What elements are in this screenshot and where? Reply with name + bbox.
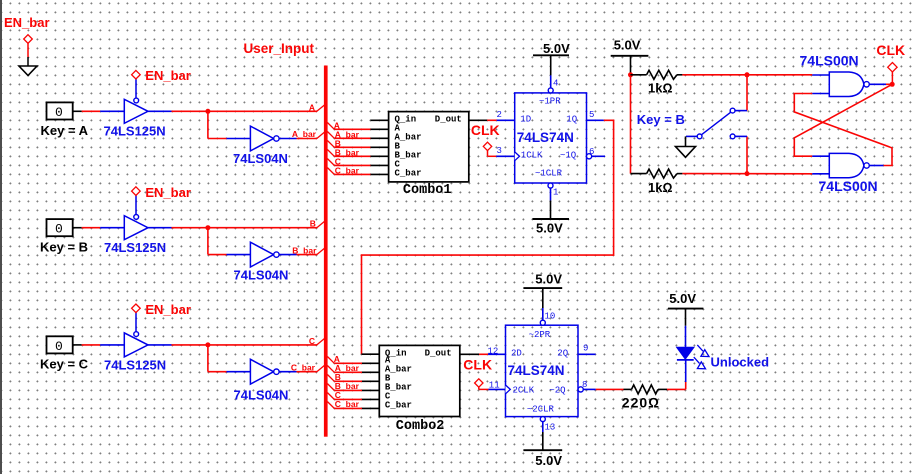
inverter U4 74LS04N (B_bar) [250, 242, 279, 267]
svg-text:D_out: D_out [425, 348, 452, 358]
switch S1 (SPDT Key B) [686, 108, 747, 139]
wire bus to Combo1 pin C_bar [327, 168, 388, 175]
svg-text:2Q: 2Q [557, 348, 568, 358]
wire box B to buffer [73, 227, 125, 229]
svg-text:~1Q: ~1Q [560, 150, 576, 160]
pin stub ~1Q (unconnected) [592, 155, 605, 157]
svg-text:EN_bar: EN_bar [145, 68, 191, 83]
pin bubble ~1PR pin 4 [548, 88, 553, 93]
bus entry C [317, 338, 326, 345]
svg-text:5.0V: 5.0V [614, 38, 641, 53]
svg-text:1kΩ: 1kΩ [648, 80, 672, 95]
resistor R1 1kOhm (upper) [631, 70, 683, 79]
wire box C to buffer [73, 344, 125, 346]
svg-text:2CLK: 2CLK [513, 385, 535, 395]
LED1 (blue LED) [677, 347, 694, 360]
svg-text:2: 2 [497, 110, 502, 120]
svg-text:Combo1: Combo1 [403, 183, 452, 198]
svg-text:Key = B: Key = B [40, 240, 88, 255]
wire CLK diamond to pin 11 [479, 387, 506, 389]
svg-text:B: B [310, 219, 316, 229]
wire set node down to switch throw [746, 75, 748, 111]
svg-text:9: 9 [583, 344, 588, 354]
svg-text:4: 4 [553, 78, 558, 88]
wire inverter C output to bus [279, 371, 317, 373]
wire supply down to R2 [630, 75, 632, 174]
wire CLK diamond to pin 3 [488, 151, 515, 157]
svg-text:11: 11 [489, 381, 500, 391]
svg-text:C_bar: C_bar [335, 165, 360, 175]
svg-text:5.0V: 5.0V [536, 220, 563, 235]
subcircuit Combo2 box [379, 345, 460, 416]
svg-text:1kΩ: 1kΩ [648, 180, 672, 195]
wire buffer B output to bus [148, 227, 317, 229]
tri-state buffer U1 74LS125N (Key A) [124, 98, 148, 123]
svg-text:EN_bar: EN_bar [145, 185, 191, 200]
wire bus to Combo2 pin C [327, 393, 379, 400]
junction node set [745, 72, 750, 77]
svg-text:~2CLR: ~2CLR [527, 405, 555, 415]
wire ~2Q pin 8 to resistor R3 [583, 388, 623, 390]
wire bus to Combo2 pin A_bar [327, 366, 379, 373]
emission arrows LED1 [694, 345, 709, 369]
svg-text:0: 0 [55, 222, 63, 237]
bus entry C_bar [317, 365, 326, 372]
wire Combo1 D_out to U7 1D pin 2 [469, 119, 515, 121]
supply 5.0V (below U7) [533, 219, 570, 235]
svg-text:CLK: CLK [471, 122, 500, 138]
resistor R3 220Ohm [624, 385, 668, 394]
wire supply stem [630, 56, 632, 75]
pin stubs U9 inputs [812, 75, 829, 94]
wire buffer C output to bus [148, 344, 317, 346]
bus entry A_bar [317, 131, 326, 138]
svg-text:~2PR: ~2PR [529, 330, 551, 340]
bus entry B_bar [317, 248, 326, 255]
wire bus to Combo2 pin B_bar [327, 384, 379, 391]
wire upper gate second input from lower gate output [794, 94, 892, 166]
junction node reset [745, 171, 750, 176]
svg-text:Key = A: Key = A [41, 123, 89, 138]
svg-text:User_Input: User_Input [244, 41, 315, 56]
bus entry A [317, 104, 326, 111]
pin bubble ~1Q pin 6 [587, 154, 592, 159]
svg-text:C_bar: C_bar [291, 362, 316, 372]
wire inverter A output to bus [279, 138, 317, 140]
svg-text:74LS04N: 74LS04N [233, 151, 288, 166]
wire Combo2 D_out to U8 2D pin 12 [460, 353, 506, 355]
wire U10 output [869, 165, 883, 167]
svg-text:1D: 1D [520, 114, 531, 124]
pin stub 2Q pin 9 (unconnected) [578, 353, 596, 355]
svg-text:3: 3 [497, 146, 502, 156]
wire bus to Combo1 pin A_bar [327, 132, 388, 139]
connector diamond EN_bar (buffer A) [132, 70, 141, 79]
pin stub Q_in Combo1 (unconnected) [371, 119, 389, 121]
svg-text:1Q: 1Q [566, 114, 577, 124]
svg-text:Unlocked: Unlocked [711, 355, 770, 370]
svg-text:5.0V: 5.0V [543, 41, 570, 56]
svg-text:EN_bar: EN_bar [145, 302, 191, 317]
svg-text:0: 0 [55, 105, 63, 120]
NAND gate U9 74LS00N (upper) [829, 72, 869, 97]
svg-text:C: C [309, 336, 315, 346]
svg-text:5.0V: 5.0V [669, 291, 696, 306]
wire bus to Combo2 pin B [327, 375, 379, 382]
input box Key C value 0 [47, 336, 73, 354]
supply 5.0V (switch section) [611, 38, 649, 56]
input box Key A value 0 [47, 102, 73, 120]
svg-text:74LS04N: 74LS04N [234, 267, 289, 282]
D flip-flop U7 74LS74N [515, 93, 587, 183]
svg-text:74LS125N: 74LS125N [104, 240, 166, 255]
wire branch B to inverter [208, 228, 251, 255]
ground (digital ground symbol) [19, 66, 37, 76]
input box Key B value 0 [47, 219, 73, 237]
pin stubs U10 inputs [812, 156, 829, 174]
supply 5.0V (above U7) [533, 41, 570, 56]
wire pin 13 to supply [542, 422, 544, 451]
svg-text:~2Q: ~2Q [549, 385, 565, 395]
junction node B [205, 225, 210, 230]
connector diamond CLK (latch output) [888, 63, 897, 72]
wire bus to Combo1 pin B [327, 141, 388, 148]
wire resistor R3 to LED1 [667, 360, 686, 389]
junction node supply [628, 72, 633, 77]
svg-text:2D: 2D [511, 348, 522, 358]
wire EN_bar to ground [27, 43, 29, 57]
wire enable stem C [135, 313, 137, 332]
svg-text:0: 0 [55, 339, 63, 354]
svg-text:~1CLR: ~1CLR [535, 169, 563, 179]
wire bus to Combo1 pin B_bar [327, 150, 388, 157]
subcircuit Combo1 box [389, 112, 469, 182]
svg-text:B_bar: B_bar [292, 245, 317, 255]
svg-text:Key = C: Key = C [40, 357, 89, 372]
wire branch A to inverter [208, 111, 251, 138]
svg-text:C_bar: C_bar [385, 400, 412, 410]
supply 5.0V (below U8) [523, 450, 562, 468]
resistor R2 1kOhm (lower) [631, 169, 683, 178]
junction node CLK [890, 82, 895, 87]
wire inverter B output to bus [279, 254, 317, 256]
svg-text:74LS00N: 74LS00N [819, 178, 878, 194]
D flip-flop U8 74LS74N [506, 325, 579, 416]
junction node A [205, 109, 210, 114]
pin bubble ~2CLR pin 13 [540, 417, 545, 422]
pin bubble ~1CLR pin 1 [548, 183, 553, 188]
svg-text:220Ω: 220Ω [622, 395, 660, 411]
inverter U2 74LS04N (A_bar) [250, 126, 279, 151]
svg-text:5.0V: 5.0V [535, 271, 562, 286]
bus entry B [317, 221, 326, 228]
wire buffer A output to bus [148, 110, 317, 112]
pin bubble ~2Q pin 8 [578, 387, 583, 392]
wire branch C to inverter [208, 345, 251, 372]
wire LED1 to supply [685, 309, 687, 348]
svg-text:Combo2: Combo2 [396, 419, 445, 434]
wire switch pole to ground [685, 136, 687, 146]
tri-state buffer U3 74LS125N (Key B) [124, 215, 148, 240]
svg-text:1: 1 [553, 187, 558, 197]
wire bus to Combo2 pin C_bar [327, 402, 379, 409]
sheet border left [0, 0, 2, 474]
wire supply to pin 4 [550, 55, 552, 88]
wire bus to Combo1 pin C [327, 159, 388, 166]
wire R1 to latch set node [682, 74, 812, 76]
connector diamond CLK (U7) [483, 142, 491, 150]
svg-text:A: A [309, 102, 315, 112]
connector diamond EN_bar [24, 35, 33, 44]
wire U9 output to CLK node [869, 83, 892, 85]
wire box A to buffer [73, 110, 125, 112]
svg-text:EN_bar: EN_bar [4, 15, 50, 30]
svg-text:1CLK: 1CLK [521, 150, 543, 160]
connector diamond CLK (U8) [475, 379, 483, 387]
wire cross-couple Q to lower gate input [794, 84, 892, 156]
supply 5.0V (above U8) [523, 271, 562, 288]
junction node C [205, 342, 210, 347]
svg-text:C_bar: C_bar [335, 399, 360, 409]
svg-text:C_bar: C_bar [395, 168, 422, 178]
supply 5.0V (above LED1) [668, 291, 703, 309]
svg-text:74LS74N: 74LS74N [517, 130, 574, 145]
wire bus to Combo1 pin A [327, 123, 388, 130]
wire R2 to latch reset node [682, 173, 812, 175]
svg-text:12: 12 [488, 346, 499, 356]
svg-text:74LS74N: 74LS74N [508, 363, 565, 378]
svg-text:CLK: CLK [876, 42, 905, 58]
ground (switch pole) [676, 147, 696, 158]
connector diamond EN_bar (buffer C) [132, 304, 141, 313]
svg-text:Key = B: Key = B [637, 112, 685, 127]
wire bus to Combo2 pin A [327, 357, 379, 364]
svg-text:A_bar: A_bar [292, 129, 317, 139]
svg-text:D_out: D_out [435, 114, 462, 124]
bus User_Input [324, 66, 328, 437]
svg-text:5: 5 [589, 110, 594, 120]
svg-text:74LS125N: 74LS125N [104, 357, 166, 372]
svg-text:~1PR: ~1PR [539, 97, 561, 107]
svg-text:CLK: CLK [463, 356, 492, 372]
wire reset node up to switch throw [746, 136, 748, 173]
inverter U6 74LS04N (C_bar) [250, 359, 279, 384]
svg-text:13: 13 [545, 423, 556, 433]
wire enable stem A [135, 79, 137, 98]
wire 1Q pin 5 feedback to Combo2 Q_in [362, 120, 614, 354]
tri-state buffer U5 74LS125N (Key C) [124, 332, 148, 357]
svg-text:5.0V: 5.0V [535, 453, 562, 468]
connector diamond EN_bar (buffer B) [132, 187, 141, 196]
svg-text:74LS125N: 74LS125N [104, 124, 166, 139]
wire supply to pin 10 [542, 288, 544, 320]
NAND gate U10 74LS00N (lower) [829, 153, 869, 177]
wire pin 1 to supply [550, 188, 552, 219]
pin bubble ~2PR pin 10 [540, 320, 545, 325]
svg-text:74LS04N: 74LS04N [234, 387, 289, 402]
svg-text:74LS00N: 74LS00N [800, 53, 859, 69]
svg-text:10: 10 [545, 311, 556, 321]
wire CLK node to diamond [891, 72, 893, 84]
wire enable stem B [135, 195, 137, 214]
